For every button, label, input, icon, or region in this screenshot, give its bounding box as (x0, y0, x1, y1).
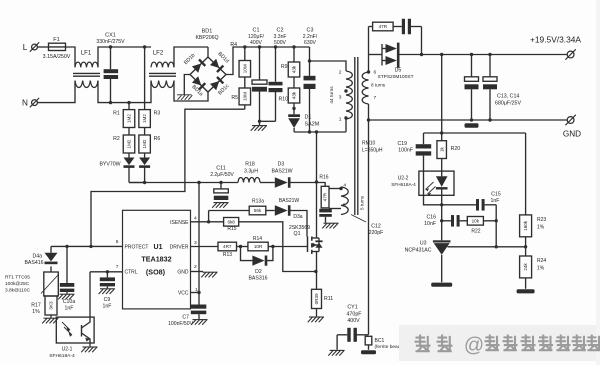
diode D3 (271, 161, 292, 187)
svg-text:C11: C11 (216, 165, 226, 171)
svg-text:PROTECT: PROTECT (125, 244, 149, 250)
wire LF1 out to rail (98, 47, 151, 67)
resistor R20 (437, 133, 460, 171)
optocoupler U2-2 (391, 171, 454, 196)
bridge BD1 outline (190, 29, 226, 92)
capacitor CY1 (337, 305, 368, 342)
label RM10 (362, 141, 383, 154)
svg-text:100k@25C: 100k@25C (5, 281, 30, 287)
wire LF2 bottom out (174, 81, 208, 101)
svg-text:ISENSE: ISENSE (170, 220, 189, 226)
svg-text:C12: C12 (371, 223, 381, 229)
svg-text:10M: 10M (242, 92, 247, 101)
svg-text:8 turns: 8 turns (371, 83, 386, 88)
svg-text:2SK3569: 2SK3569 (289, 225, 310, 231)
node CX1 bottom (109, 101, 112, 104)
capacitor C2 (260, 27, 287, 121)
svg-text:R15: R15 (227, 226, 236, 232)
node CX1 top (109, 45, 112, 48)
svg-text:1%: 1% (32, 309, 40, 315)
svg-text:100nF/50V: 100nF/50V (168, 321, 194, 327)
choke LF1 (73, 51, 100, 88)
ground opto emitter (81, 343, 97, 352)
wire GND rail (369, 119, 568, 121)
resistor 47R snubber (369, 22, 402, 31)
capacitor C7 (168, 293, 206, 327)
svg-text:3K3: 3K3 (49, 301, 54, 310)
svg-text:R5: R5 (231, 95, 238, 101)
svg-text:5: 5 (343, 202, 346, 208)
svg-text:U3: U3 (420, 241, 427, 247)
capacitor C10a (60, 246, 76, 311)
svg-text:3.3nF: 3.3nF (273, 34, 286, 40)
wire R5 to brownout (244, 105, 246, 109)
svg-text:4: 4 (194, 216, 197, 222)
svg-text:R23: R23 (537, 217, 546, 223)
svg-text:R3: R3 (154, 110, 161, 116)
svg-text:F1: F1 (53, 37, 59, 43)
svg-text:BAS316: BAS316 (248, 276, 267, 282)
svg-text:R22: R22 (471, 229, 480, 235)
resistor R17 (31, 296, 57, 315)
ground bar output (465, 123, 479, 128)
svg-text:5 turns: 5 turns (360, 195, 365, 210)
svg-text:C2: C2 (277, 27, 284, 33)
svg-text:R9: R9 (281, 64, 288, 70)
svg-text:220pF: 220pF (369, 230, 384, 236)
optocoupler U2-1 (49, 317, 94, 359)
svg-text:U2-1: U2-1 (62, 346, 73, 352)
terminal L (23, 42, 39, 52)
capacitor C1 (248, 27, 267, 121)
wire CTRL (90, 270, 123, 273)
resistor R13a 56k (249, 199, 266, 215)
node after R14 (268, 245, 274, 248)
svg-text:BAS21W: BAS21W (271, 168, 292, 174)
resistor R10 (278, 77, 299, 103)
svg-text:VCC: VCC (178, 291, 189, 297)
resistor R11 (312, 289, 334, 308)
wire brownout riser (91, 109, 245, 246)
svg-text:R14: R14 (253, 236, 262, 242)
svg-text:4: 4 (343, 182, 346, 188)
resistor R13 4R7 (218, 242, 237, 258)
watermark zhihu (415, 335, 600, 357)
ground C7 (191, 320, 207, 325)
svg-text:10nF: 10nF (424, 221, 436, 227)
svg-text:C19: C19 (397, 141, 407, 147)
svg-text:1M2: 1M2 (142, 114, 147, 123)
svg-text:R18: R18 (245, 161, 255, 167)
svg-text:1M2: 1M2 (127, 139, 132, 148)
capacitor CX1 (96, 33, 125, 103)
svg-text:L: L (23, 43, 28, 52)
svg-text:400V: 400V (347, 318, 360, 324)
wire L to fuse (38, 46, 49, 48)
svg-text:C15: C15 (491, 191, 501, 197)
svg-text:400V: 400V (250, 40, 262, 46)
wire LF2 top out (174, 47, 208, 67)
svg-text:SA2M: SA2M (305, 121, 320, 127)
ground CY1 (328, 335, 344, 356)
svg-text:LF2: LF2 (153, 51, 164, 57)
transformer secondary (362, 70, 386, 105)
capacitor C14 (483, 55, 521, 121)
svg-text:C10a: C10a (63, 299, 76, 305)
wire secondary Y column (367, 104, 370, 335)
node C2 top (274, 45, 277, 48)
svg-text:500V: 500V (274, 40, 286, 46)
svg-text:24k: 24k (523, 263, 528, 271)
svg-text:C16: C16 (426, 214, 436, 220)
svg-text:2: 2 (194, 264, 197, 270)
wire +rail (400, 54, 568, 56)
svg-text:2.2nF/: 2.2nF/ (303, 34, 318, 40)
wire fuse to LF1 (66, 47, 76, 67)
wire to D3a (266, 210, 275, 212)
svg-text:3.15A/250V: 3.15A/250V (43, 54, 71, 60)
resistor R22 10k (467, 217, 496, 235)
svg-text:10k: 10k (472, 219, 480, 224)
svg-text:1nF: 1nF (65, 306, 74, 312)
resistor R15 6k8 (224, 218, 239, 232)
svg-text:D1: D1 (305, 114, 312, 120)
svg-text:7: 7 (374, 95, 377, 101)
svg-text:TEA1832: TEA1832 (141, 255, 171, 264)
svg-text:4R7: 4R7 (223, 244, 232, 249)
svg-text:0R39: 0R39 (314, 293, 319, 304)
wire gate (273, 246, 308, 248)
wire aux pin4 (329, 188, 341, 190)
ground U1 GND (201, 272, 217, 277)
svg-text:C7: C7 (182, 314, 189, 320)
choke LF2 (149, 51, 176, 88)
diode D3a (275, 198, 303, 220)
svg-text:STPS20M100ST: STPS20M100ST (378, 74, 414, 80)
svg-text:100nF: 100nF (398, 148, 413, 154)
svg-text:BC1: BC1 (375, 338, 385, 344)
capacitor C16 (424, 214, 467, 227)
terminal N (22, 98, 39, 108)
svg-text:N: N (22, 98, 28, 107)
svg-text:CTRL: CTRL (125, 270, 138, 276)
svg-text:R1: R1 (113, 110, 120, 116)
svg-text:R10: R10 (278, 97, 288, 103)
svg-text:680μF/25V: 680μF/25V (495, 100, 521, 106)
svg-text:C13, C14: C13, C14 (497, 93, 519, 99)
svg-text:L=650μH: L=650μH (362, 148, 383, 154)
svg-text:SFH618A-4: SFH618A-4 (49, 353, 75, 359)
svg-text:Q1: Q1 (294, 231, 301, 237)
wire 56k row (209, 210, 250, 212)
wire PROTECT (51, 245, 123, 248)
svg-text:C3: C3 (307, 27, 314, 33)
svg-text:10R: 10R (254, 244, 263, 249)
wire bridge top stub (207, 47, 209, 57)
resistor R5 (231, 77, 250, 105)
IC U1 TEA1832 (116, 210, 198, 309)
svg-text:3: 3 (194, 240, 197, 246)
svg-text:D5: D5 (395, 68, 402, 74)
node C14 top (488, 53, 491, 56)
svg-text:43k: 43k (292, 65, 297, 73)
svg-text:NCP431AC: NCP431AC (405, 247, 432, 253)
wire drain vertical (315, 132, 318, 238)
svg-text:2: 2 (339, 69, 342, 75)
wire aux pin5 (329, 208, 341, 210)
wire D3 to R16 (290, 183, 325, 187)
ground bar BC1 (361, 350, 376, 354)
transformer primary (329, 69, 352, 122)
wire DC plus riser (226, 47, 310, 75)
svg-text:1k: 1k (439, 146, 444, 152)
svg-text:D3a: D3a (293, 214, 302, 220)
wire BYV joined node (129, 168, 146, 185)
fuse F1 (43, 37, 71, 60)
watermark band (399, 0, 600, 365)
svg-text:D2: D2 (255, 269, 262, 275)
wire feedback riser (440, 53, 443, 133)
ground C10a (58, 294, 74, 299)
wire opto to U3 (440, 195, 443, 240)
svg-text:R20: R20 (451, 146, 461, 152)
svg-text:3: 3 (339, 95, 342, 101)
diode BD1d (210, 51, 230, 73)
svg-text:RT1 TTC05: RT1 TTC05 (5, 274, 30, 280)
wire GND pin (191, 271, 204, 273)
wire clamp to pin1 (345, 119, 347, 133)
diode BD1b (183, 53, 206, 73)
chassis ground at bridge (177, 95, 192, 100)
resistor R1 (113, 103, 135, 128)
diode BYV70W right (139, 153, 150, 168)
resistor R2 (113, 128, 135, 154)
resistor R23 (520, 215, 547, 237)
svg-text:3.8k@110C: 3.8k@110C (5, 287, 31, 293)
wire LF1 bottom out (98, 81, 151, 103)
wire R23 column (525, 133, 527, 215)
svg-text:BAS21W: BAS21W (279, 198, 300, 204)
wire ref riser (495, 205, 498, 249)
diode D2 bypass (241, 247, 273, 282)
diode BD1c (210, 76, 231, 96)
svg-text:6k8: 6k8 (227, 220, 235, 225)
svg-text:LF1: LF1 (81, 51, 92, 57)
svg-text:(SO8): (SO8) (146, 268, 166, 277)
svg-text:1M2: 1M2 (127, 114, 132, 123)
svg-text:470pF: 470pF (346, 311, 362, 317)
svg-text:R13: R13 (223, 252, 232, 258)
capacitor C3 (303, 27, 318, 132)
node after 4R7 (239, 245, 242, 248)
wire left corner to chassis (184, 75, 190, 95)
wire ref row (448, 245, 528, 248)
svg-text:1%: 1% (537, 225, 545, 231)
wire VCC line (129, 181, 238, 184)
terminal GND (563, 115, 581, 139)
node R10 D1 (292, 103, 295, 114)
capacitor C9 (100, 272, 115, 310)
svg-text:1: 1 (339, 117, 342, 123)
svg-text:SFH618A-4: SFH618A-4 (391, 182, 416, 187)
svg-text:R24: R24 (537, 258, 546, 264)
capacitor snubber (402, 19, 422, 35)
svg-text:@: @ (464, 335, 484, 357)
transistor Q1 2SK3569 (289, 225, 323, 254)
svg-text:R6: R6 (154, 136, 161, 142)
wire pin2 feed (308, 59, 346, 71)
wire ISENSE jog (239, 222, 316, 272)
svg-text:GND: GND (177, 270, 189, 276)
svg-text:C9: C9 (104, 297, 111, 303)
svg-text:6: 6 (374, 70, 377, 76)
svg-text:7: 7 (116, 264, 119, 270)
label C12 (351, 215, 383, 237)
terminal +output (565, 49, 575, 59)
wire VCC pin (191, 291, 201, 294)
capacitor C11 (210, 165, 234, 208)
wire DRIVER (191, 246, 219, 248)
wire ISENSE (191, 220, 224, 223)
diode D1 (288, 114, 319, 132)
svg-text:BD1: BD1 (202, 29, 213, 35)
ground C9 (99, 289, 115, 294)
svg-text:R13a: R13a (252, 199, 264, 205)
svg-text:1nF: 1nF (103, 304, 112, 310)
svg-text:330nF/275V: 330nF/275V (96, 39, 125, 45)
svg-text:(ferrite bead): (ferrite bead) (375, 344, 403, 350)
node R1 top (127, 101, 130, 104)
wire 56k riser (208, 211, 210, 222)
node R4 top (243, 45, 246, 48)
svg-text:R16: R16 (319, 174, 328, 180)
resistor R24 (520, 237, 547, 278)
svg-text:10M: 10M (242, 64, 247, 73)
ferrite bead BC1 (365, 336, 402, 350)
wire source (314, 252, 317, 290)
svg-text:BYV70W: BYV70W (99, 161, 120, 167)
node C13 bottom (470, 118, 492, 121)
wire snubber to rail (420, 27, 423, 57)
node R9 top (292, 45, 295, 48)
svg-text:+19.5V/3.34A: +19.5V/3.34A (530, 34, 581, 44)
svg-text:U2-2: U2-2 (398, 175, 409, 181)
svg-text:R11: R11 (324, 296, 333, 302)
capacitor C15 (442, 191, 501, 210)
transformer core (355, 57, 358, 215)
svg-text:160k: 160k (523, 220, 528, 231)
svg-text:R17: R17 (31, 303, 41, 309)
capacitor C13 (465, 55, 479, 121)
diode D5 dual (378, 43, 414, 81)
svg-text:1nF: 1nF (491, 198, 500, 204)
svg-text:C1: C1 (253, 27, 260, 33)
svg-text:43k: 43k (292, 91, 297, 99)
inductor R18 (238, 161, 260, 182)
svg-text:D4a: D4a (32, 253, 42, 259)
svg-text:6: 6 (116, 239, 119, 245)
svg-text:D3: D3 (278, 161, 285, 167)
wire clamp (294, 130, 346, 133)
svg-text:GND: GND (563, 130, 581, 139)
svg-text:47R: 47R (323, 192, 328, 201)
diode D4a (24, 246, 57, 272)
wire pin6 column (367, 27, 370, 74)
svg-text:120μF/: 120μF/ (248, 34, 265, 40)
svg-text:1%: 1% (537, 266, 545, 272)
wire D3a to gate top (290, 211, 307, 237)
svg-text:630V: 630V (304, 40, 316, 46)
thermistor RT1 (5, 272, 59, 296)
node C13 top (470, 53, 473, 56)
svg-text:U1: U1 (154, 244, 163, 251)
svg-text:R2: R2 (113, 136, 120, 142)
ground R11 (308, 309, 324, 323)
node C1 top (258, 45, 261, 48)
ground bar R24 (517, 278, 535, 294)
wire VCC descent (198, 183, 200, 293)
shunt regulator U3 NCP431AC (405, 240, 451, 282)
transformer aux winding (339, 182, 364, 214)
ground C1 (251, 121, 267, 131)
wire Vout bus (424, 131, 526, 134)
resistor R4 (230, 42, 250, 77)
resistor R16 (319, 174, 329, 208)
svg-text:CY1: CY1 (347, 305, 357, 311)
svg-text:KBP206Q: KBP206Q (195, 35, 218, 41)
node C1 C2 ground (258, 120, 261, 123)
label output voltage (530, 34, 581, 44)
resistor R3 (139, 45, 161, 127)
svg-text:3.3μH: 3.3μH (244, 168, 258, 174)
svg-text:DRIVER: DRIVER (170, 244, 189, 250)
ground C12 (322, 223, 338, 228)
capacitor C19 (397, 133, 441, 205)
diode BD1a (190, 76, 206, 97)
wire after R18 (260, 182, 275, 184)
wire D5 anode tee (369, 54, 383, 56)
svg-text:BAS416: BAS416 (24, 260, 43, 266)
svg-text:2.2μF/50V: 2.2μF/50V (210, 172, 234, 178)
svg-text:CX1: CX1 (105, 33, 116, 39)
ground R17 (42, 315, 58, 323)
svg-text:1M2: 1M2 (142, 139, 147, 148)
resistor R6 (139, 128, 161, 154)
wire opto collector (89, 272, 91, 317)
resistor R14 10R (237, 236, 269, 251)
svg-text:44 turns: 44 turns (329, 86, 335, 104)
capacitor C12 (319, 209, 332, 223)
wire N to LF1 (38, 81, 75, 103)
diode BYV70W left (99, 153, 134, 168)
ground bar U3 (431, 283, 452, 287)
svg-text:47R: 47R (379, 24, 388, 29)
svg-text:56k: 56k (254, 208, 262, 213)
resistor R9 (281, 47, 300, 77)
svg-text:R4: R4 (230, 42, 237, 48)
